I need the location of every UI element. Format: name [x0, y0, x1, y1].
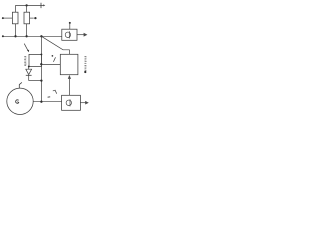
label dot right of controller	[84, 71, 86, 73]
wire R2 right tap	[30, 17, 34, 19]
bottom rail wire	[33, 101, 61, 103]
junction dot diode branch	[40, 79, 42, 81]
wire top supply rail	[16, 4, 45, 6]
wire to diode D1	[28, 67, 30, 70]
adjustment arrow shaft	[24, 44, 28, 51]
power tap arrow	[43, 4, 45, 6]
junction dot branch rail	[40, 101, 42, 103]
component box B setpoint	[29, 54, 41, 66]
label right of controller (rotated tiny text)	[84, 56, 86, 70]
wire vertical branch	[40, 36, 42, 101]
junction dot box B top	[40, 53, 42, 55]
diode D1 cathode bar	[26, 74, 32, 76]
drive output arrowhead	[85, 101, 89, 105]
bus wire horizontal	[3, 35, 62, 37]
transducer box U2	[62, 29, 77, 40]
transducer inner circle	[65, 32, 70, 37]
wire diode return	[29, 80, 42, 82]
wire R2 top	[26, 5, 28, 12]
junction dot bus branch	[40, 35, 42, 37]
terminal dot left	[2, 17, 4, 19]
wire R1 bottom	[15, 24, 17, 37]
glyph inside motor	[16, 100, 19, 104]
drive inner circle	[66, 100, 71, 105]
wire R1 top	[15, 5, 17, 12]
wire diagonal to controller	[41, 36, 69, 54]
resistor R1	[12, 12, 18, 24]
junction dot box B bottom left	[28, 66, 30, 68]
adjustment arrowhead	[27, 50, 29, 53]
bus left terminal dot	[2, 35, 4, 37]
junction dot R2 bus	[25, 35, 27, 37]
label left of box B (rotated tiny text)	[24, 56, 26, 65]
transducer inner line	[68, 31, 70, 38]
wire R1 left tap	[4, 17, 13, 19]
diode D1 triangle	[26, 69, 32, 74]
wire tap to controller	[41, 63, 60, 65]
drive box U3	[62, 95, 81, 110]
wire diode down	[28, 75, 30, 80]
tiny label dash	[48, 96, 51, 98]
terminal dot right	[34, 17, 36, 19]
wire transducer top	[69, 24, 71, 30]
terminal dot above transducer	[69, 22, 71, 24]
junction dot tap	[40, 63, 42, 65]
controller box U1	[60, 54, 78, 74]
actuator arrowhead up	[68, 75, 71, 79]
tick label above motor	[19, 82, 22, 88]
junction dot R2 top	[25, 4, 27, 6]
transducer output wire	[77, 34, 84, 36]
transducer output arrowhead	[84, 33, 88, 37]
resistor R2	[24, 12, 30, 24]
wire R2 bottom	[26, 24, 28, 37]
tiny label mark	[53, 90, 57, 94]
lever stroke	[53, 57, 55, 62]
motor circle M1	[7, 88, 33, 114]
drive output wire	[80, 102, 85, 104]
power tap bar	[40, 3, 42, 8]
actuator wire up	[68, 79, 70, 96]
drive inner line	[69, 99, 71, 106]
junction dot R1 bus	[14, 35, 16, 37]
contact dot near controller	[52, 55, 54, 57]
